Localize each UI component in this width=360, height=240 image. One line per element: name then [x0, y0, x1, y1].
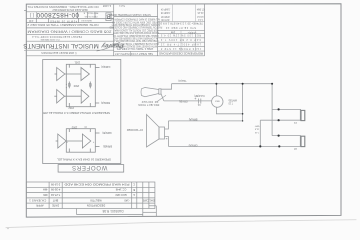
triangle T3 [81, 68, 89, 81]
ref-des table texts [158, 8, 204, 56]
svg-text:RES 150 5% 12W 20 4.5: RES 150 5% 12W 20 4.5 [160, 34, 201, 36]
svg-text:CHECKED PER TEST PROCEDURE 205: CHECKED PER TEST PROCEDURE 205-1. [113, 39, 159, 41]
svg-text:WHT: WHT [254, 124, 259, 126]
svg-text:-140: -140 [124, 198, 130, 202]
svg-text:GRN(A): GRN(A) [101, 65, 110, 69]
svg-text:ECO 483: ECO 483 [115, 193, 127, 197]
svg-text:JACK PLATE ASSEMBLY TO BE INST: JACK PLATE ASSEMBLY TO BE INSTALLED [112, 42, 159, 45]
speaker box 2 [66, 129, 95, 153]
svg-text:REFERENCE DESIGNATIONS: REFERENCE DESIGNATIONS [159, 52, 203, 56]
triangle T1 [57, 68, 65, 81]
wire J1 tip stub [272, 108, 301, 110]
size letter box [106, 13, 111, 21]
svg-text:SEE SHEET 2 FOR PARTS LIST: SEE SHEET 2 FOR PARTS LIST [114, 52, 153, 55]
wire stub [89, 103, 91, 107]
wire BRN(A) stub [95, 102, 99, 104]
wire input stub LS2 [54, 95, 56, 97]
junction sleeve bus [259, 145, 261, 147]
svg-text:2-18-99: 2-18-99 [50, 183, 60, 187]
revision table [26, 182, 156, 216]
border ticks [24, 10, 26, 12]
svg-text:SIZE B NO: SIZE B NO [81, 19, 92, 21]
svg-text:CAP 8.2 BP 100V 7.2: CAP 8.2 BP 100V 7.2 [160, 38, 201, 41]
svg-text:8.2uF(BP): 8.2uF(BP) [194, 94, 205, 96]
svg-text:APPR: APPR [36, 204, 43, 208]
horn bottom wire [164, 100, 212, 102]
horn top lead [161, 84, 172, 90]
svg-text:306: 306 [43, 193, 48, 197]
svg-text:LINE 1 THRU CH-2 INPUTS: LINE 1 THRU CH-2 INPUTS [117, 47, 154, 51]
junction J1 sleeve [278, 119, 280, 121]
svg-text:5-2 1: 5-2 1 [119, 4, 125, 7]
svg-text:+: + [65, 86, 67, 89]
junction rail lamp [215, 83, 217, 85]
svg-text:WBL?TI8: WBL?TI8 [90, 198, 102, 202]
wire lamp bottom lead [216, 107, 242, 114]
svg-text:PER SPEC 102. ROUTE ALL LEADS: PER SPEC 102. ROUTE ALL LEADS AWAY [113, 28, 158, 31]
speaker box 1 [66, 64, 95, 106]
revision table texts [29, 183, 155, 214]
svg-text:GRN(A): GRN(A) [188, 143, 197, 146]
title block grid [26, 4, 204, 56]
wire GRN(B) stub [95, 132, 99, 134]
speaker top wire [168, 120, 242, 122]
svg-text:SHOWN. CONNECTIONS TO BE MADE: SHOWN. CONNECTIONS TO BE MADE WITH [111, 23, 160, 26]
svg-text:DESCRIPTION: DESCRIPTION [87, 204, 105, 208]
schematic right [141, 84, 305, 147]
svg-text:1501: 1501 [74, 61, 80, 64]
wire stub top left [68, 64, 70, 67]
svg-text:DATE: DATE [52, 204, 59, 208]
svg-text:NOTE: REFER ASSEMBLY TYPE 05 D: NOTE: REFER ASSEMBLY TYPE 05 DWG REV 2 [27, 23, 99, 26]
svg-text:+: + [92, 140, 94, 143]
wire stub node 1502 [68, 103, 70, 107]
svg-text:© 1998 PEAVEY ELECTRONICS: © 1998 PEAVEY ELECTRONICS [41, 51, 77, 54]
svg-text:ALL WIRES 18 AWG STRANDED COPP: ALL WIRES 18 AWG STRANDED COPPER UL [111, 18, 160, 21]
resistor R1 [68, 82, 70, 89]
svg-text:J1: J1 [294, 121, 297, 125]
svg-text:NOTES: UNLESS OTHERWISE NOTED: NOTES: UNLESS OTHERWISE NOTED [109, 13, 151, 15]
svg-text:1502: 1502 [68, 106, 74, 109]
svg-text:PROJECT HORN: PROJECT HORN [138, 103, 159, 105]
svg-text:BRN(A): BRN(A) [189, 118, 198, 121]
wire input stub LS5 [56, 140, 58, 142]
svg-text:BRN(A): BRN(A) [101, 101, 110, 105]
wire stub top right [89, 64, 91, 67]
svg-text:JUMP 08: JUMP 08 [160, 11, 170, 13]
speaker bottom wire [168, 145, 301, 147]
junction rail V2 [242, 83, 244, 85]
svg-text:78748E+ 25 1.2.3.45.E78.1.8.9.: 78748E+ 25 1.2.3.45.E78.1.8.9.10 [158, 22, 203, 25]
svg-text:-MH: -MH [43, 188, 48, 192]
svg-text:43MTR 35 IMPED: 43MTR 35 IMPED [50, 19, 77, 22]
svg-text:WHT(B): WHT(B) [228, 99, 237, 101]
svg-text:ALL DRIVERS MUST BE OBSERVED A: ALL DRIVERS MUST BE OBSERVED AND [113, 37, 158, 40]
schematic labels [127, 79, 297, 151]
svg-text:GRN(B): GRN(B) [102, 131, 111, 135]
ref-des table [158, 4, 205, 51]
footer strip [76, 209, 78, 215]
wire J1 sleeve stub [260, 119, 301, 121]
wire tip bus vertical [271, 84, 273, 136]
svg-text:REPLACES P/N 80-485815 REV: REPLACES P/N 80-485815 REV [52, 8, 87, 11]
wire lamp top lead [215, 84, 217, 96]
cabinet outer box [43, 60, 124, 173]
svg-text:PEAVEY ELECTRONICS CORP 711-A: PEAVEY ELECTRONICS CORP 711-A [32, 35, 82, 38]
triangle T4 [81, 90, 89, 104]
svg-text:B: B [133, 188, 135, 192]
wire stub box2 top right [89, 129, 91, 132]
wire GRN(A) stub [95, 66, 99, 68]
svg-text:PE01 01 4L5: PE01 01 4L5 [84, 15, 97, 17]
svg-text:RATED 105C 600V WITH COLOR COD: RATED 105C 600V WITH COLOR CODES AS [112, 20, 160, 23]
wire input stub LS1 [55, 73, 57, 75]
svg-text:DH1: DH1 [149, 198, 155, 202]
svg-text:BRN(B): BRN(B) [103, 144, 112, 148]
wire sleeve bus vertical [259, 120, 261, 146]
wire woofer minus terminal [165, 137, 169, 147]
svg-text:2-4.908: 2-4.908 [102, 4, 111, 7]
svg-text:CWS: CWS [142, 198, 148, 202]
svg-text:NE2: NE2 [214, 100, 219, 102]
svg-text:24-16: 24-16 [197, 11, 204, 13]
svg-text:CHJEANS 1: CHJEANS 1 [29, 198, 47, 202]
svg-text:STK 4E.87 REF 12: STK 4E.87 REF 12 [165, 26, 196, 29]
svg-text:4 IR: 4 IR [29, 19, 34, 22]
svg-text:JU78 06: JU78 06 [161, 18, 170, 20]
svg-text:JACK PHONE 14 STR 8: JACK PHONE 14 STR 8 [160, 47, 201, 50]
svg-text:(1): (1) [84, 126, 87, 128]
wire stub box2 top left [68, 129, 70, 132]
svg-text:PS4 WAS PROMOD 054 EC48 ADD: PS4 WAS PROMOD 054 EC48 ADD [64, 183, 129, 187]
svg-text:15" WOOFER: 15" WOOFER [127, 128, 143, 132]
svg-text:CC 1448: CC 1448 [115, 188, 126, 192]
woofer speaker LS8 [147, 115, 160, 148]
svg-text:[ ]: [ ] [30, 13, 34, 18]
wire woofer plus terminal [165, 121, 169, 129]
svg-text:C: C [133, 183, 135, 187]
svg-text:1500: 1500 [73, 84, 79, 87]
wire rail to woofer vertical [242, 84, 244, 121]
junction J2 sleeve [278, 145, 280, 147]
svg-text:SPEAKERS 8 OHM EA WIRED X-X PA: SPEAKERS 8 OHM EA WIRED X-X PARALLEL 205 [42, 111, 110, 114]
svg-text:SPEAKERS 16 OHM EA X-X PARALLE: SPEAKERS 16 OHM EA X-X PARALLEL [56, 157, 111, 160]
jack J2 [299, 136, 301, 147]
junction J2 tip [278, 135, 280, 137]
page edge shadow [6, 220, 356, 230]
svg-text:7.15: 7.15 [228, 101, 233, 103]
svg-text:DO NOT SCALE DWG - DIMENSIONS: DO NOT SCALE DWG - DIMENSIONS IN INCHES … [27, 5, 99, 8]
svg-text:07.0M4: 07.0M4 [196, 8, 204, 10]
junction woofer wire [242, 120, 243, 121]
svg-text:P.O. BOX 2898 MS: P.O. BOX 2898 MS [40, 38, 59, 40]
border frame [26, 4, 341, 217]
svg-text:7-15: 7-15 [254, 131, 259, 133]
svg-text:+: + [65, 82, 67, 85]
svg-text:1503: 1503 [71, 125, 77, 128]
WOOFERS label box [58, 165, 124, 173]
wire BRN(B) stub [95, 146, 99, 148]
svg-text:BNT: BNT [53, 198, 59, 202]
svg-text:CABLE TIES AS REQUIRED. POLARI: CABLE TIES AS REQUIRED. POLARITY OF [112, 34, 159, 37]
triangle T2 [57, 90, 65, 104]
svg-text:7-27-94: 7-27-94 [50, 193, 60, 197]
junction lamp lead V2 [242, 113, 244, 115]
svg-text:A: A [133, 193, 135, 197]
svg-text:+3.2(2)+: +3.2(2)+ [187, 31, 196, 33]
horn tweeter LS7 [140, 89, 142, 96]
svg-text:4-9.12: 4-9.12 [197, 15, 204, 17]
capacitor C4 [198, 99, 200, 104]
notes paragraph lines [109, 18, 162, 51]
svg-text:MUSICAL INSTRUMENTS: MUSICAL INSTRUMENTS [23, 42, 99, 49]
svg-text:GRY(B): GRY(B) [179, 100, 188, 103]
resistor R2 [89, 82, 91, 89]
wire row2 [65, 95, 82, 97]
wire stub box2 right [89, 149, 91, 153]
triangle T6 [82, 134, 90, 148]
wire J2 tip stub [272, 135, 301, 137]
svg-text:DA05101 R.08: DA05101 R.08 [102, 209, 123, 213]
junction rail end [271, 83, 273, 85]
svg-text:FROM SHARP EDGES AND SECURE WI: FROM SHARP EDGES AND SECURE WITH [112, 31, 158, 34]
wire YEL(A) rail [172, 83, 273, 85]
svg-text:C4: C4 [197, 103, 201, 105]
svg-text:J2: J2 [294, 147, 297, 151]
jack J1 [299, 109, 301, 120]
lamp DS1 [212, 96, 223, 107]
wire row3 [66, 140, 82, 142]
triangle T5 [58, 134, 66, 148]
svg-text:REV 05181 - B: REV 05181 - B [83, 12, 98, 14]
svg-text:1.14: 1.14 [198, 18, 203, 20]
svg-text:JPR8 08: JPR8 08 [160, 15, 170, 17]
svg-text:LAMP 4001 T-4 PR 12: LAMP 4001 T-4 PR 12 [160, 43, 201, 46]
svg-text:J2-S: J2-S [254, 128, 259, 130]
cabinet texts [42, 61, 112, 170]
svg-text:00-H85Z8000: 00-H85Z8000 [36, 11, 79, 18]
wire row1 [65, 73, 81, 75]
svg-text:WOOFERS: WOOFERS [71, 164, 107, 170]
svg-text:4-26-99: 4-26-99 [50, 188, 60, 192]
junction J1 tip [278, 108, 280, 110]
leader line [157, 95, 167, 102]
wire stub box2 left [68, 149, 70, 153]
svg-text:FASTON TERMINALS CRIMPED AND S: FASTON TERMINALS CRIMPED AND SOLDERED [109, 26, 162, 29]
svg-text:JUMP 04: JUMP 04 [160, 8, 170, 10]
svg-text:205 BASS COMBO / WIRING DIAGRA: 205 BASS COMBO / WIRING DIAGRAM [28, 29, 112, 33]
horn bottom lead [161, 94, 164, 101]
svg-text:YEL(A): YEL(A) [178, 79, 186, 82]
svg-text:HF DRIVER: HF DRIVER [141, 100, 158, 102]
